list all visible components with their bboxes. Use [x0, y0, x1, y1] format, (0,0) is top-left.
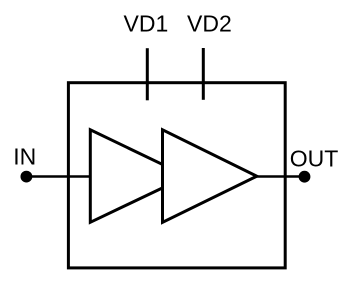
svg-text:VD1: VD1: [124, 11, 169, 37]
node OUT terminal dot: [299, 171, 311, 183]
pin VD2: [202, 48, 205, 100]
node IN terminal dot: [21, 171, 33, 183]
svg-text:VD2: VD2: [187, 11, 232, 37]
buffer A1: [90, 130, 187, 223]
svg-text:OUT: OUT: [290, 145, 339, 171]
pin VD1: [146, 48, 149, 100]
package box: [68, 83, 285, 268]
svg-text:IN: IN: [13, 143, 36, 169]
buffer A2: [163, 130, 257, 223]
wire buffer A2 to OUT: [256, 175, 305, 178]
wire IN to buffer A1: [26, 175, 92, 178]
